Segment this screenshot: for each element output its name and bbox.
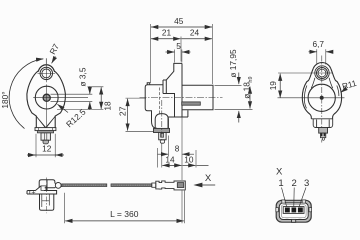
svg-text:L = 360: L = 360 — [110, 209, 139, 219]
svg-text:19: 19 — [268, 81, 278, 91]
svg-text:ø 17,95: ø 17,95 — [228, 49, 238, 78]
svg-text:10: 10 — [184, 155, 194, 165]
svg-text:18: 18 — [102, 101, 112, 111]
svg-text:21: 21 — [162, 27, 172, 37]
svg-text:180°: 180° — [0, 91, 10, 108]
svg-text:27: 27 — [117, 106, 127, 116]
svg-text:h9: h9 — [248, 76, 254, 82]
svg-text:2: 2 — [292, 178, 297, 189]
svg-text:14: 14 — [165, 155, 175, 165]
svg-text:5: 5 — [176, 41, 181, 51]
svg-text:6,7: 6,7 — [313, 39, 325, 49]
svg-text:X: X — [276, 167, 283, 178]
svg-text:3: 3 — [304, 178, 309, 189]
svg-text:X: X — [205, 173, 212, 184]
svg-text:R12.5: R12.5 — [64, 107, 88, 130]
svg-text:ø 18: ø 18 — [242, 82, 252, 99]
svg-text:8: 8 — [175, 143, 180, 153]
svg-text:24: 24 — [190, 27, 200, 37]
svg-text:45: 45 — [174, 16, 184, 26]
svg-text:1: 1 — [278, 178, 283, 189]
svg-text:12: 12 — [42, 144, 52, 154]
svg-text:R7: R7 — [47, 42, 61, 56]
svg-text:ø 3,5: ø 3,5 — [77, 67, 87, 86]
svg-text:R11: R11 — [341, 78, 358, 92]
